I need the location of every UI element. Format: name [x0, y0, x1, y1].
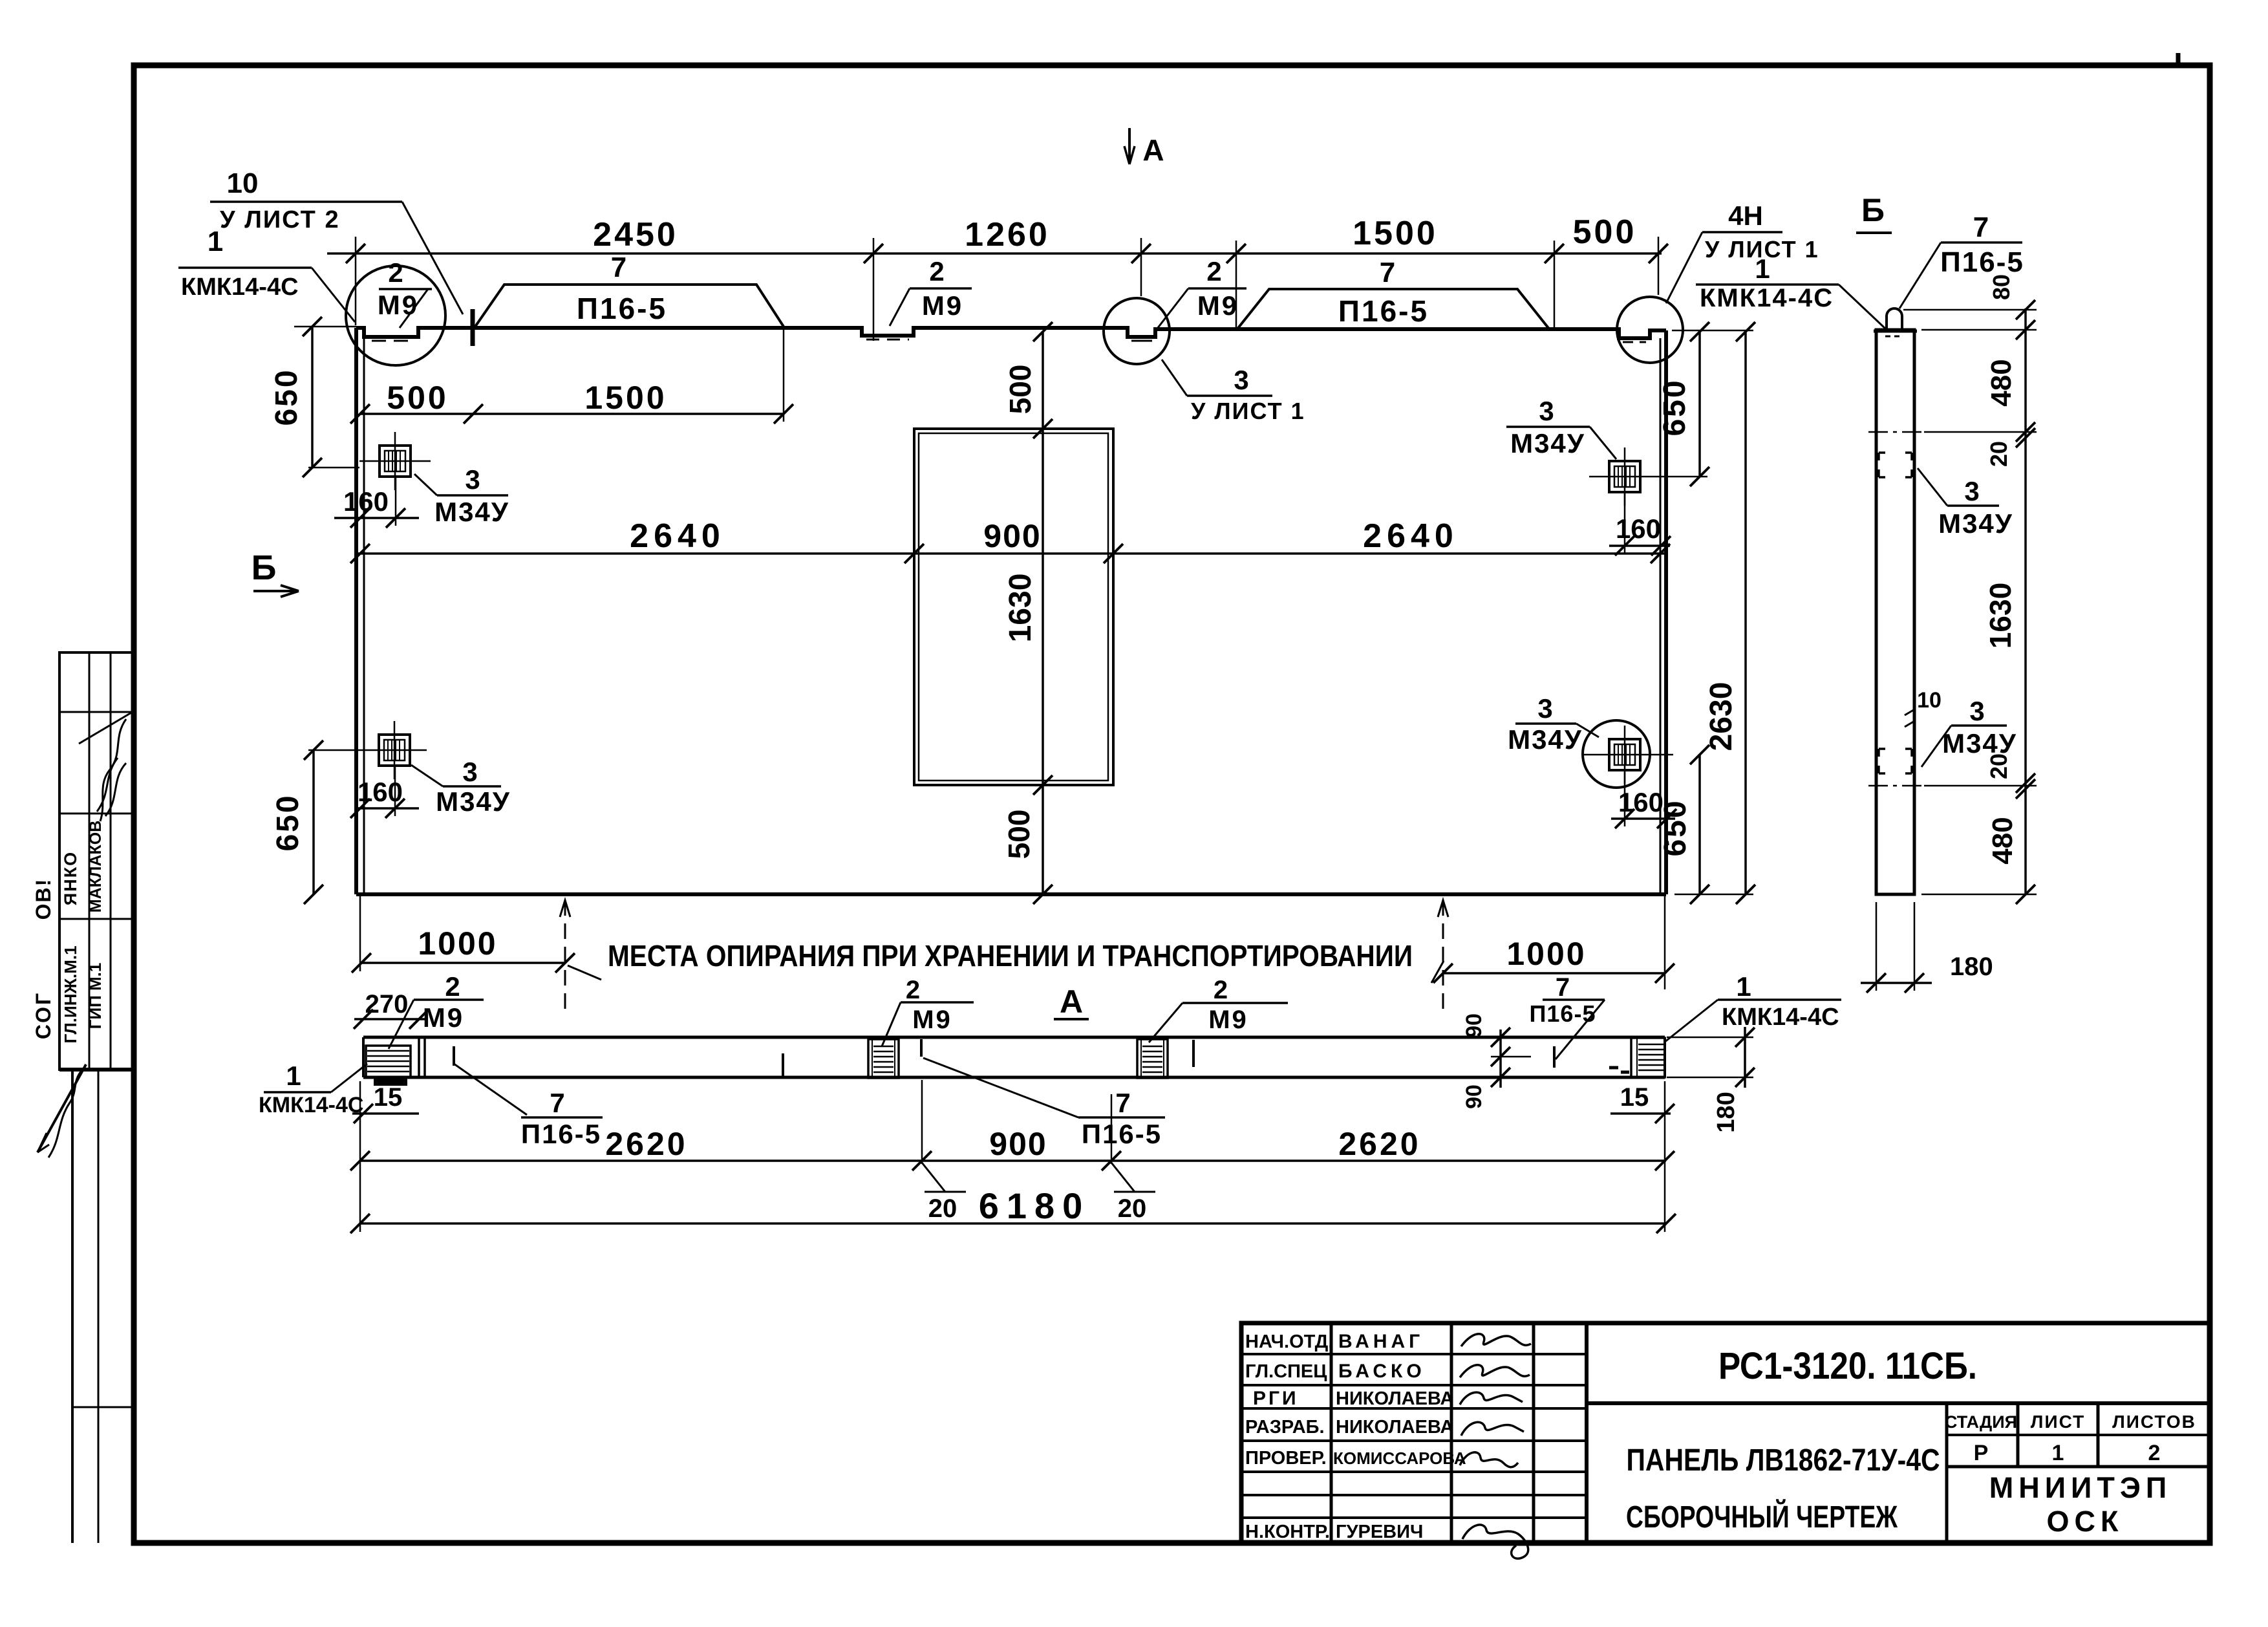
- svg-text:КМК14-4С: КМК14-4С: [1700, 284, 1834, 312]
- svg-text:НИКОЛАЕВА: НИКОЛАЕВА: [1336, 1388, 1453, 1409]
- svg-text:650: 650: [271, 793, 305, 851]
- svg-text:М9: М9: [912, 1006, 952, 1034]
- svg-text:1: 1: [286, 1061, 301, 1091]
- svg-text:2: 2: [906, 976, 920, 1004]
- svg-text:М9: М9: [1197, 290, 1239, 321]
- svg-text:160: 160: [1616, 513, 1661, 544]
- svg-text:М9: М9: [922, 290, 963, 321]
- svg-text:2620: 2620: [605, 1126, 687, 1162]
- svg-text:900: 900: [983, 518, 1041, 554]
- svg-text:2: 2: [445, 971, 460, 1002]
- svg-text:ГЛ.СПЕЦ: ГЛ.СПЕЦ: [1245, 1361, 1327, 1382]
- svg-text:1000: 1000: [418, 925, 497, 962]
- svg-text:СТАДИЯ: СТАДИЯ: [1945, 1412, 2017, 1432]
- svg-text:М34У: М34У: [1510, 428, 1585, 458]
- svg-text:МЕСТА ОПИРАНИЯ ПРИ ХРАНЕНИИ: МЕСТА ОПИРАНИЯ ПРИ ХРАНЕНИИ И ТРАНСПОРТИ…: [608, 939, 1413, 973]
- svg-text:160: 160: [343, 486, 389, 517]
- svg-text:1: 1: [1736, 971, 1751, 1002]
- svg-text:7: 7: [1380, 257, 1395, 288]
- svg-text:М9: М9: [423, 1002, 464, 1033]
- svg-text:500: 500: [1003, 365, 1037, 415]
- svg-text:2450: 2450: [593, 216, 678, 253]
- svg-text:1: 1: [1755, 253, 1770, 284]
- svg-text:3: 3: [1969, 696, 1984, 726]
- svg-text:КМК14-4С: КМК14-4С: [259, 1093, 363, 1117]
- svg-text:2: 2: [2148, 1441, 2161, 1465]
- svg-text:ЯНКО: ЯНКО: [61, 851, 80, 905]
- svg-text:ОВ!: ОВ!: [32, 878, 55, 920]
- svg-text:500: 500: [1573, 213, 1637, 251]
- svg-text:180: 180: [1713, 1092, 1740, 1132]
- svg-text:М34У: М34У: [1942, 728, 2017, 759]
- svg-text:П16-5: П16-5: [521, 1119, 601, 1149]
- svg-text:КМК14-4С: КМК14-4С: [1722, 1004, 1839, 1031]
- svg-text:П16-5: П16-5: [577, 292, 667, 325]
- svg-text:КМК14-4С: КМК14-4С: [181, 274, 299, 301]
- svg-text:У ЛИСТ 1: У ЛИСТ 1: [1191, 398, 1305, 424]
- svg-text:1260: 1260: [965, 216, 1050, 253]
- svg-text:М34У: М34У: [434, 497, 509, 527]
- svg-text:80: 80: [1988, 274, 2015, 300]
- svg-text:7: 7: [1973, 211, 1989, 243]
- svg-text:М34У: М34У: [436, 786, 511, 817]
- svg-text:ОСК: ОСК: [2047, 1505, 2124, 1538]
- svg-text:Н.КОНТР.: Н.КОНТР.: [1245, 1522, 1330, 1542]
- svg-text:ЛИСТОВ: ЛИСТОВ: [2112, 1412, 2196, 1432]
- svg-text:3: 3: [462, 757, 477, 787]
- svg-text:10: 10: [1917, 688, 1942, 713]
- svg-text:ГУРЕВИЧ: ГУРЕВИЧ: [1336, 1522, 1423, 1542]
- svg-text:20: 20: [928, 1194, 957, 1223]
- svg-text:20: 20: [1985, 441, 2012, 467]
- svg-text:180: 180: [1950, 953, 1993, 981]
- svg-text:1000: 1000: [1506, 936, 1586, 972]
- svg-text:Б: Б: [251, 548, 277, 587]
- svg-text:15: 15: [1620, 1083, 1649, 1112]
- svg-text:1500: 1500: [1353, 215, 1438, 252]
- svg-text:СОГ: СОГ: [32, 991, 55, 1039]
- svg-text:2640: 2640: [1363, 517, 1459, 555]
- svg-text:20: 20: [1118, 1194, 1147, 1223]
- svg-text:НИКОЛАЕВА: НИКОЛАЕВА: [1336, 1417, 1453, 1438]
- svg-text:РАЗРАБ.: РАЗРАБ.: [1245, 1417, 1325, 1438]
- svg-text:7: 7: [550, 1088, 564, 1118]
- svg-text:2620: 2620: [1338, 1126, 1420, 1162]
- svg-text:ГЛ.ИНЖ.М.1: ГЛ.ИНЖ.М.1: [61, 945, 80, 1043]
- svg-text:3: 3: [1964, 476, 1979, 506]
- svg-text:МАКЛАКОВ: МАКЛАКОВ: [87, 821, 105, 913]
- svg-text:ПРОВЕР.: ПРОВЕР.: [1245, 1448, 1327, 1469]
- svg-text:1: 1: [208, 226, 223, 257]
- svg-text:СБОРОЧНЫЙ ЧЕРТЕЖ: СБОРОЧНЫЙ ЧЕРТЕЖ: [1626, 1499, 1898, 1535]
- svg-text:160: 160: [358, 777, 403, 807]
- svg-text:7: 7: [1556, 973, 1570, 1002]
- svg-text:Б: Б: [1861, 192, 1885, 228]
- svg-text:6180: 6180: [979, 1185, 1091, 1226]
- svg-text:3: 3: [1537, 693, 1552, 724]
- svg-text:М34У: М34У: [1938, 508, 2013, 539]
- svg-text:А: А: [1142, 133, 1164, 167]
- svg-text:2: 2: [1206, 256, 1221, 286]
- svg-text:10: 10: [227, 167, 259, 199]
- svg-text:М9: М9: [1208, 1006, 1248, 1034]
- svg-text:БАСКО: БАСКО: [1338, 1361, 1426, 1382]
- svg-text:ГИП М.1: ГИП М.1: [85, 963, 105, 1029]
- svg-text:1: 1: [2052, 1441, 2064, 1465]
- svg-text:П16-5: П16-5: [1082, 1119, 1162, 1149]
- svg-text:ВАНАГ: ВАНАГ: [1338, 1331, 1424, 1352]
- svg-text:3: 3: [1539, 396, 1554, 426]
- svg-text:270: 270: [365, 990, 409, 1018]
- svg-text:ПАНЕЛЬ ЛВ1862-71У-4С: ПАНЕЛЬ ЛВ1862-71У-4С: [1627, 1443, 1940, 1478]
- svg-text:П16-5: П16-5: [1940, 246, 2024, 278]
- svg-text:90: 90: [1462, 1084, 1486, 1109]
- svg-text:90: 90: [1462, 1013, 1486, 1038]
- svg-text:2: 2: [929, 256, 944, 286]
- svg-text:Р: Р: [1974, 1441, 1989, 1465]
- svg-text:НАЧ.ОТД.: НАЧ.ОТД.: [1245, 1331, 1333, 1352]
- svg-text:1500: 1500: [584, 380, 667, 416]
- svg-text:500: 500: [387, 380, 448, 416]
- svg-text:МНИИТЭП: МНИИТЭП: [1989, 1471, 2172, 1504]
- svg-text:2630: 2630: [1704, 682, 1738, 751]
- svg-text:КОМИССАРОВА: КОМИССАРОВА: [1333, 1449, 1466, 1468]
- svg-text:650: 650: [270, 368, 304, 426]
- svg-text:П16-5: П16-5: [1338, 294, 1429, 328]
- svg-text:П16-5: П16-5: [1530, 1000, 1596, 1027]
- svg-text:480: 480: [1987, 817, 2018, 864]
- svg-text:2: 2: [388, 257, 403, 288]
- svg-text:650: 650: [1658, 378, 1692, 436]
- svg-text:М34У: М34У: [1508, 724, 1583, 755]
- svg-text:1630: 1630: [1003, 574, 1038, 643]
- svg-text:2: 2: [1214, 976, 1228, 1004]
- svg-text:1630: 1630: [1984, 583, 2017, 649]
- svg-text:480: 480: [1985, 359, 2017, 406]
- svg-text:7: 7: [611, 252, 626, 283]
- svg-text:4Н: 4Н: [1728, 200, 1763, 231]
- svg-text:РС1-3120. 11СБ.: РС1-3120. 11СБ.: [1718, 1345, 1977, 1387]
- svg-text:7: 7: [1115, 1088, 1130, 1118]
- svg-text:15: 15: [374, 1083, 403, 1112]
- svg-text:2640: 2640: [630, 517, 725, 555]
- svg-text:900: 900: [989, 1126, 1047, 1162]
- svg-text:РГИ: РГИ: [1253, 1388, 1299, 1409]
- svg-text:3: 3: [465, 464, 480, 495]
- svg-text:А: А: [1060, 984, 1083, 1020]
- svg-text:У ЛИСТ 2: У ЛИСТ 2: [220, 206, 340, 233]
- svg-text:3: 3: [1234, 365, 1248, 395]
- svg-text:500: 500: [1002, 810, 1036, 859]
- svg-text:М9: М9: [378, 290, 419, 320]
- svg-text:160: 160: [1618, 787, 1664, 817]
- svg-text:ЛИСТ: ЛИСТ: [2031, 1412, 2085, 1432]
